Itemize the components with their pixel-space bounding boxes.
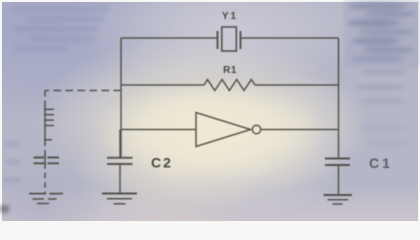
wire: left vertical rail bbox=[120, 38, 122, 157]
ghost bleed-through text top-left bbox=[12, 6, 110, 51]
capacitor C2 bbox=[107, 130, 133, 194]
wire: top rail left segment bbox=[121, 37, 217, 39]
ground (C2) bbox=[102, 194, 137, 204]
resistor R1 bbox=[121, 80, 339, 91]
dashed wire corner down bbox=[44, 91, 46, 108]
ink smudge bottom-left bbox=[0, 205, 9, 213]
crystal Y1 bbox=[218, 27, 241, 51]
inductor L (dashed optional coil) bbox=[44, 106, 54, 140]
capacitor C1 bbox=[325, 159, 350, 195]
svg-text:Y1: Y1 bbox=[222, 11, 238, 22]
inverter U1 input wire bbox=[121, 129, 196, 131]
svg-text:C2: C2 bbox=[151, 155, 173, 171]
ground (C1) bbox=[324, 195, 353, 204]
dashed wire (optional branch) bbox=[45, 90, 121, 92]
capacitor C (dashed optional) bbox=[34, 155, 60, 194]
wire: right vertical rail bbox=[338, 38, 340, 158]
inverter U1 output wire bbox=[261, 129, 339, 131]
svg-text:R1: R1 bbox=[223, 65, 237, 76]
wire: top rail right segment bbox=[241, 37, 339, 39]
ghost bleed-through left margin bbox=[4, 142, 20, 182]
inverter U1 bbox=[196, 113, 261, 147]
wire (dashed) coil to capacitor bbox=[44, 140, 46, 156]
svg-text:C1: C1 bbox=[369, 155, 393, 171]
ghost bleed-through text top-right bbox=[344, 0, 420, 146]
ground (dashed optional) bbox=[29, 194, 63, 204]
